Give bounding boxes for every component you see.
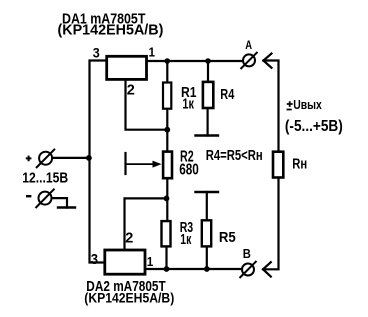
- svg-text:2: 2: [125, 231, 133, 247]
- svg-text:A: A: [245, 39, 252, 52]
- svg-text:1к: 1к: [182, 95, 194, 112]
- svg-text:R5: R5: [219, 228, 236, 245]
- svg-text:Uвых: Uвых: [293, 98, 322, 112]
- svg-text:B: B: [243, 247, 252, 262]
- svg-text:1к: 1к: [180, 232, 192, 248]
- svg-text:(-5...+5В): (-5...+5В): [285, 118, 343, 135]
- svg-text:3: 3: [93, 45, 100, 61]
- svg-text:R4=R5<Rн: R4=R5<Rн: [206, 146, 263, 163]
- svg-text:R4: R4: [220, 85, 235, 102]
- svg-text:1: 1: [149, 45, 156, 60]
- svg-text:(KP142EH5A/B): (KP142EH5A/B): [58, 22, 164, 38]
- svg-text:1: 1: [147, 254, 154, 269]
- svg-text:(KP142EH5A/B): (KP142EH5A/B): [84, 290, 174, 306]
- svg-text:12...15В: 12...15В: [22, 169, 68, 185]
- svg-text:3: 3: [91, 252, 99, 268]
- svg-text:2: 2: [127, 82, 135, 98]
- svg-text:Rн: Rн: [292, 155, 307, 172]
- svg-text:680: 680: [179, 160, 199, 178]
